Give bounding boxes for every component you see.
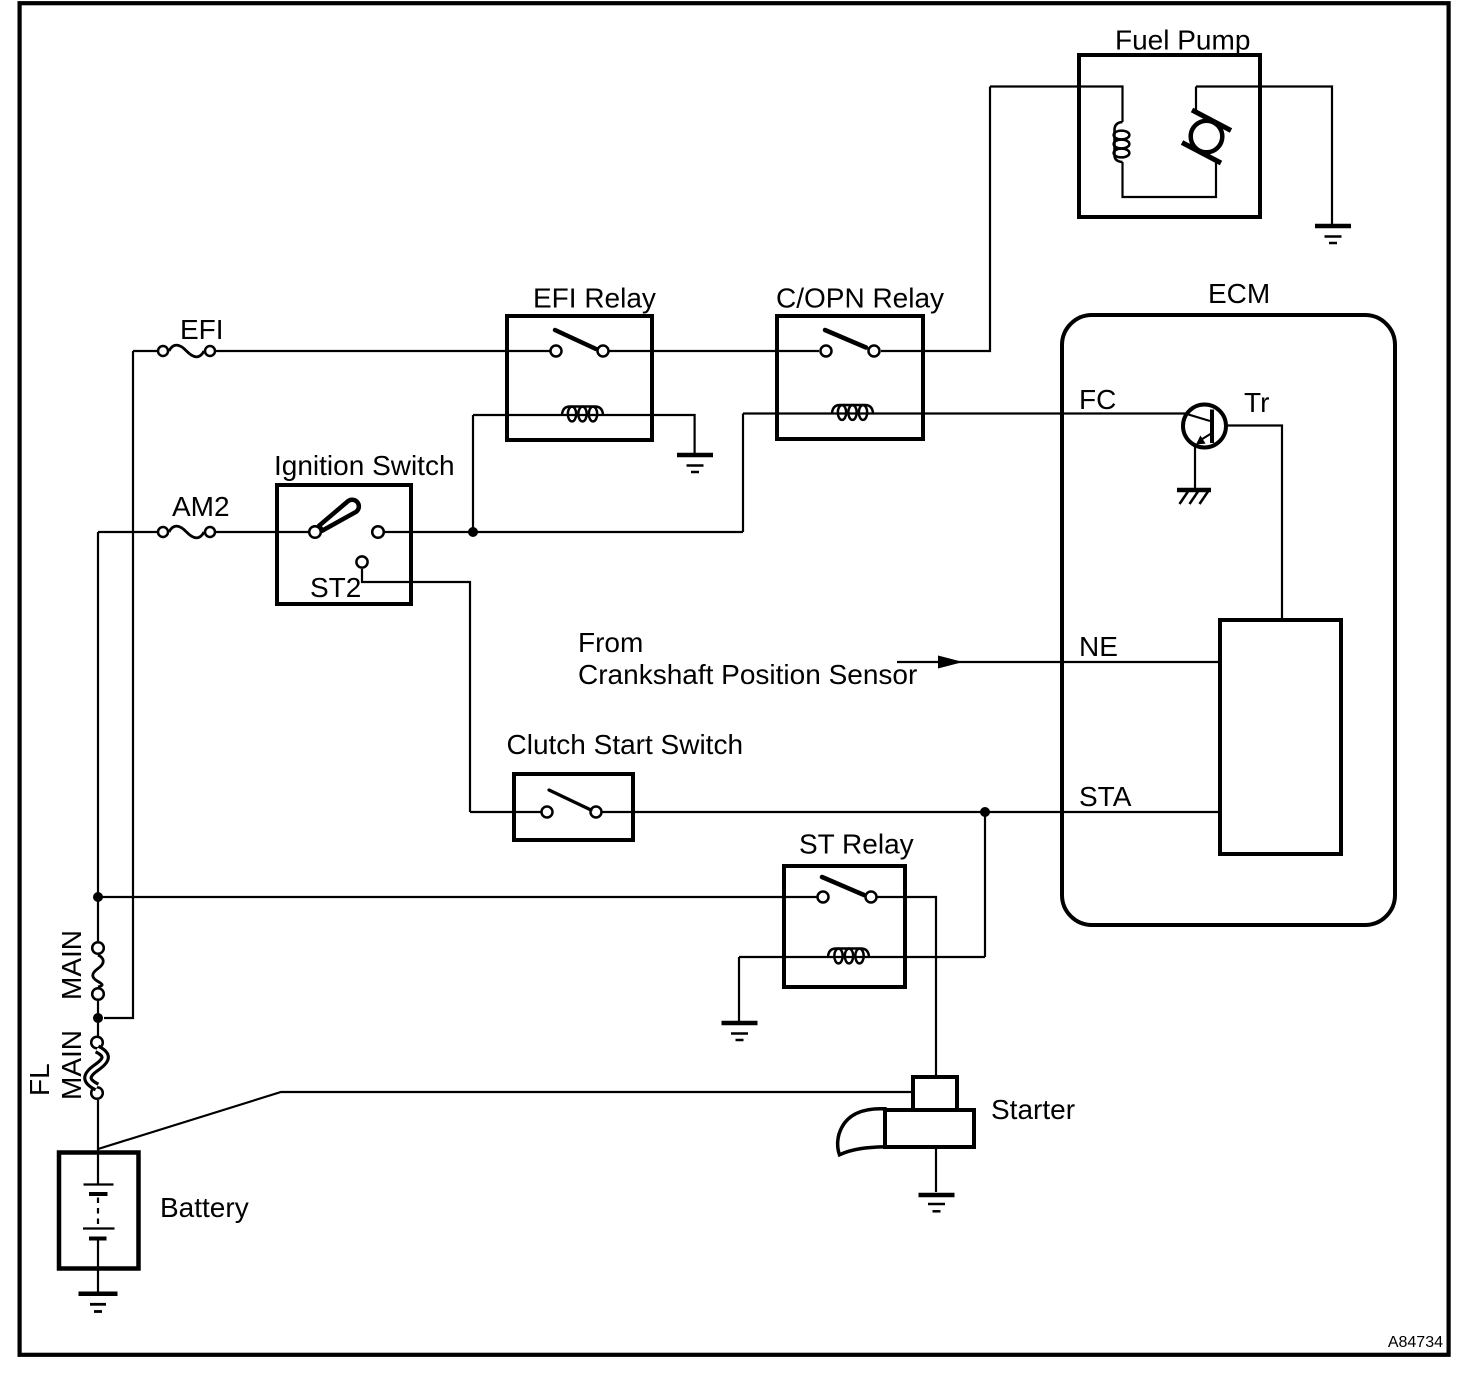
svg-text:Tr: Tr — [1244, 387, 1269, 418]
svg-text:From: From — [578, 627, 643, 658]
svg-text:NE: NE — [1079, 631, 1118, 662]
svg-text:AM2: AM2 — [172, 491, 230, 522]
svg-text:C/OPN Relay: C/OPN Relay — [776, 283, 944, 314]
svg-text:MAIN: MAIN — [56, 1030, 87, 1100]
svg-text:STA: STA — [1079, 781, 1132, 812]
svg-text:Crankshaft Position Sensor: Crankshaft Position Sensor — [578, 659, 917, 690]
svg-text:Starter: Starter — [991, 1094, 1075, 1125]
svg-text:EFI Relay: EFI Relay — [533, 283, 656, 314]
svg-text:FC: FC — [1079, 384, 1116, 415]
svg-text:A84734: A84734 — [1388, 1334, 1443, 1351]
svg-text:Clutch Start Switch: Clutch Start Switch — [507, 729, 744, 760]
svg-text:ST Relay: ST Relay — [799, 829, 914, 860]
svg-text:Fuel Pump: Fuel Pump — [1115, 25, 1250, 56]
svg-text:EFI: EFI — [180, 314, 224, 345]
svg-text:ECM: ECM — [1208, 278, 1270, 309]
svg-text:Battery: Battery — [160, 1192, 249, 1223]
svg-text:FL: FL — [24, 1063, 55, 1096]
svg-text:ST2: ST2 — [310, 572, 361, 603]
svg-text:MAIN: MAIN — [56, 930, 87, 1000]
svg-text:Ignition Switch: Ignition Switch — [274, 450, 455, 481]
